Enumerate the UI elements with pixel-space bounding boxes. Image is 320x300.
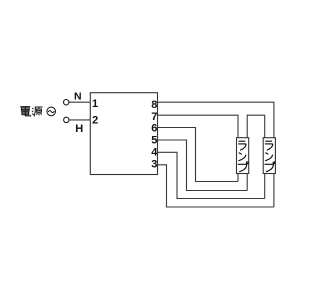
svg-text:2: 2 — [92, 115, 98, 127]
svg-text:1: 1 — [92, 98, 98, 110]
svg-text:3: 3 — [151, 159, 157, 171]
svg-text:H: H — [75, 123, 83, 135]
svg-text:7: 7 — [151, 111, 157, 123]
svg-text:4: 4 — [151, 147, 158, 159]
svg-text:6: 6 — [151, 123, 157, 135]
svg-text:N: N — [74, 91, 82, 103]
svg-text:5: 5 — [151, 135, 157, 147]
svg-text:8: 8 — [151, 99, 157, 111]
